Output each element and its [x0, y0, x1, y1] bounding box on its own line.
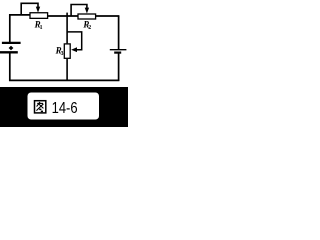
caption bar — [0, 87, 128, 127]
svg-text:2: 2 — [88, 25, 91, 31]
svg-text:1: 1 — [40, 25, 43, 31]
caption glyph 图 — [35, 101, 46, 113]
rheostat R1 — [21, 3, 47, 18]
caption text 14-6 — [52, 100, 78, 117]
wire bottom — [9, 79, 119, 81]
svg-text:14-6: 14-6 — [52, 100, 78, 117]
wire R1 to R2 — [47, 15, 78, 17]
wire top-right horizontal — [96, 15, 120, 17]
battery B2 (right cell) — [110, 50, 127, 53]
wire left vertical lower — [9, 53, 11, 81]
wire left vertical upper — [9, 14, 11, 42]
rheostat R3 (vertical) — [64, 13, 81, 81]
wire right vertical lower — [118, 53, 120, 81]
battery B1 (left battery pack) — [0, 43, 21, 52]
caption box — [28, 93, 100, 120]
wire right vertical upper — [118, 16, 120, 49]
svg-text:3: 3 — [61, 51, 64, 57]
wire top-left horizontal — [9, 14, 30, 16]
rheostat R2 — [71, 5, 96, 20]
label R1 — [34, 20, 43, 31]
label R2 — [82, 20, 91, 32]
label R3 — [55, 46, 64, 58]
